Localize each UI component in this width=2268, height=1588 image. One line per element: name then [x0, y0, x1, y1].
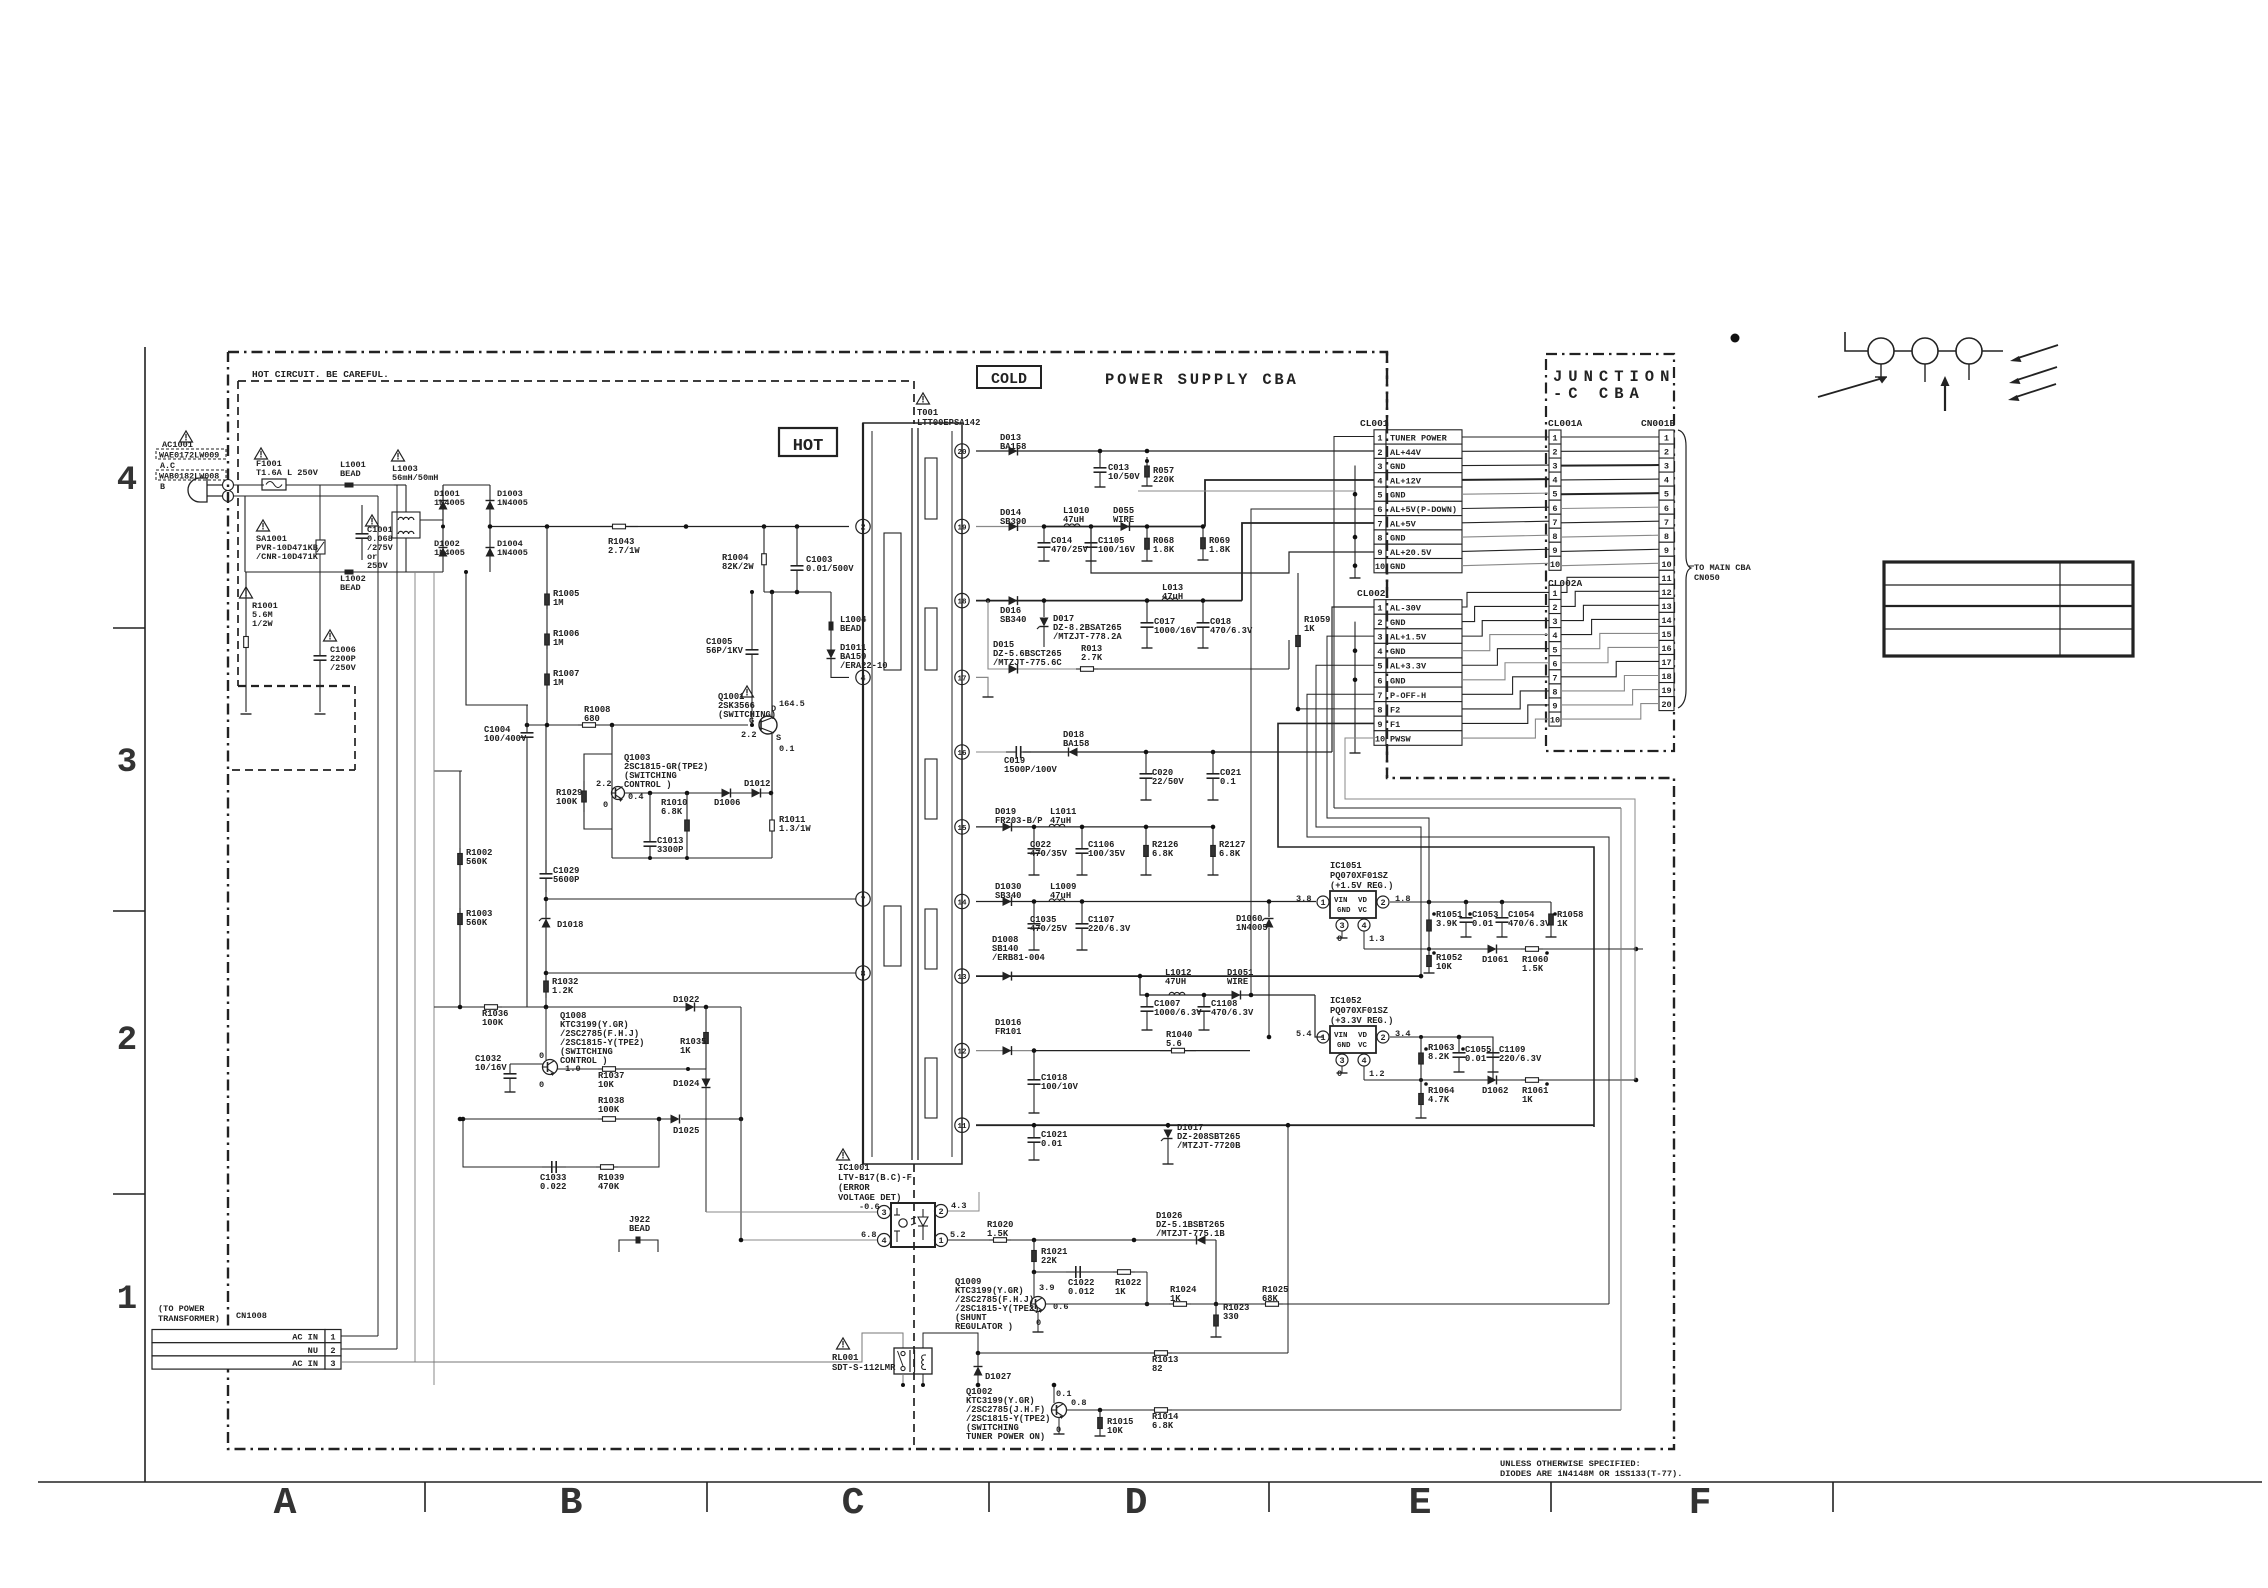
svg-text:6: 6 — [1664, 504, 1669, 514]
transformer T001 core — [912, 428, 918, 1160]
svg-text:1: 1 — [938, 1236, 943, 1246]
svg-text:1: 1 — [1552, 589, 1557, 599]
wire CL002-8 to CL002A — [1462, 691, 1549, 709]
capacitor C022 — [1028, 825, 1068, 875]
wire C1033 loop — [461, 1117, 662, 1167]
svg-text:JUNCTION: JUNCTION — [1553, 368, 1675, 386]
transformer T001 label — [917, 408, 980, 428]
wire relay coil bottom — [921, 1374, 925, 1387]
wire F1 net — [1278, 723, 1594, 1127]
svg-text:TUNER POWER: TUNER POWER — [1390, 434, 1448, 444]
inductor L1009 — [1049, 882, 1076, 902]
resistor R1059 — [1296, 573, 1331, 711]
connector CL001 — [1374, 430, 1462, 573]
diode D1016 — [995, 1018, 1021, 1055]
svg-text:100/10V: 100/10V — [1041, 1082, 1079, 1092]
svg-text:1M: 1M — [553, 678, 564, 688]
svg-text:/250V: /250V — [330, 663, 357, 673]
svg-text:11: 11 — [957, 1123, 967, 1131]
resistor R1035 — [680, 1007, 708, 1069]
svg-text:AL+5V: AL+5V — [1390, 519, 1417, 529]
svg-text:330: 330 — [1223, 1312, 1239, 1322]
transformer T001 winding rail right — [951, 431, 953, 1157]
warning triangle IC1001 — [837, 1149, 850, 1160]
wire CL002-4 to CL002A — [1462, 635, 1549, 651]
wire opto pin4 — [739, 1238, 877, 1243]
svg-text:CN050: CN050 — [1694, 573, 1720, 583]
svg-text:2: 2 — [117, 1022, 137, 1060]
wire GND bus CL001 — [1350, 466, 1361, 579]
svg-text:18: 18 — [957, 599, 967, 607]
transformer pin 11 — [955, 1118, 969, 1132]
wire to pin4 — [831, 670, 849, 677]
svg-text:REGULATOR ): REGULATOR ) — [955, 1322, 1013, 1332]
wire CL001-5 to CL001A — [1462, 493, 1549, 494]
svg-text:D1018: D1018 — [557, 920, 583, 930]
diode D1002 — [434, 539, 465, 558]
capacitor C018 — [1197, 598, 1253, 648]
svg-text:VIN: VIN — [1334, 1032, 1348, 1040]
wire AL+1.5V net — [1327, 636, 1429, 902]
label CL002A — [1548, 578, 1583, 589]
svg-text:P-OFF-H: P-OFF-H — [1390, 691, 1426, 701]
svg-text:2.7K: 2.7K — [1081, 653, 1103, 663]
svg-text:220/6.3V: 220/6.3V — [1499, 1054, 1542, 1064]
diode D1003 — [486, 485, 528, 572]
wire CL002A-9 to CN001B-19 — [1561, 690, 1659, 705]
svg-text:4.3: 4.3 — [951, 1201, 966, 1211]
svg-text:5: 5 — [1552, 490, 1557, 500]
wire row13 branch down — [1138, 974, 1315, 995]
wire CL001A-6 to CN001B — [1561, 507, 1659, 508]
svg-text:E: E — [1409, 1482, 1432, 1525]
svg-text:4: 4 — [881, 1236, 886, 1246]
diode D1001 — [434, 485, 465, 572]
svg-text:7: 7 — [1552, 673, 1557, 683]
svg-text:7: 7 — [1377, 519, 1382, 529]
resistor R1064 — [1416, 1080, 1456, 1118]
svg-text:2.2: 2.2 — [596, 779, 611, 789]
svg-text:GND: GND — [1390, 562, 1405, 572]
ruler tick — [113, 910, 145, 912]
svg-text:220/6.3V: 220/6.3V — [1088, 924, 1131, 934]
svg-text:AL+20.5V: AL+20.5V — [1390, 548, 1432, 558]
label Q1008 — [560, 1011, 644, 1066]
svg-text:11: 11 — [1661, 574, 1671, 584]
svg-text:0: 0 — [1036, 1318, 1041, 1328]
svg-text:AL+1.5V: AL+1.5V — [1390, 633, 1427, 643]
wire D1022 net down — [740, 1007, 742, 1240]
svg-text:47UH: 47UH — [1165, 977, 1186, 987]
hot area dashed boundary — [238, 380, 914, 382]
hot area dashed boundary — [913, 1164, 915, 1449]
svg-text:VD: VD — [1358, 1032, 1368, 1040]
wire CL002A-5 to CN001B-15 — [1561, 633, 1659, 648]
svg-text:GND: GND — [1390, 534, 1405, 544]
wire long vertical d — [433, 572, 435, 1385]
border frame bottom ruler line — [38, 1481, 2262, 1483]
connector CN1008 — [152, 1330, 341, 1370]
svg-text:3: 3 — [117, 744, 137, 782]
svg-text:1: 1 — [1320, 1033, 1325, 1043]
svg-text:6: 6 — [1377, 505, 1382, 515]
capacitor C1013 — [644, 793, 684, 858]
regulator IC1052 — [1330, 1026, 1376, 1053]
wire CL002A-3 to CN001B-13 — [1561, 605, 1659, 620]
svg-text:F1: F1 — [1390, 720, 1400, 730]
wire opto pin2 — [948, 1192, 979, 1211]
svg-text:AC IN: AC IN — [292, 1359, 318, 1369]
resistor R1024 — [1169, 1285, 1197, 1306]
svg-text:BEAD: BEAD — [340, 469, 361, 479]
svg-text:5.2: 5.2 — [950, 1230, 965, 1240]
svg-text:4: 4 — [117, 462, 137, 500]
pin IC1001-3 — [859, 1202, 891, 1219]
wire R1002 chain — [459, 771, 461, 1007]
svg-text:5: 5 — [1377, 662, 1382, 672]
svg-text:9: 9 — [1664, 546, 1669, 556]
inductor L1003 — [392, 464, 438, 538]
svg-text:3: 3 — [330, 1359, 335, 1369]
svg-text:AC IN: AC IN — [292, 1333, 318, 1343]
label IC1052 — [1330, 996, 1393, 1026]
svg-text:15: 15 — [957, 825, 967, 833]
svg-text:D1012: D1012 — [744, 779, 770, 789]
resistor R069 — [1198, 524, 1231, 560]
svg-text:1K: 1K — [1304, 624, 1315, 634]
svg-text:0: 0 — [1337, 1069, 1342, 1079]
pin IC1052-1 — [1296, 1029, 1329, 1043]
svg-text:BEAD: BEAD — [340, 583, 361, 593]
capacitor C020 — [1140, 750, 1185, 800]
wire row12 — [976, 1050, 1250, 1052]
capacitor C1033 — [540, 1161, 566, 1192]
wire IC1052 out — [1390, 1035, 1493, 1080]
svg-text:0.012: 0.012 — [1068, 1287, 1094, 1297]
svg-text:WAB0182LW008: WAB0182LW008 — [159, 472, 219, 482]
svg-text:D1061: D1061 — [1482, 955, 1508, 965]
svg-text:10/50V: 10/50V — [1108, 472, 1140, 482]
svg-text:-0.6: -0.6 — [859, 1202, 880, 1212]
svg-text:680: 680 — [584, 714, 600, 724]
svg-text:1K: 1K — [1170, 1294, 1181, 1304]
svg-text:D1024: D1024 — [673, 1079, 700, 1089]
inductor L1001 — [340, 460, 366, 488]
svg-text:13: 13 — [1661, 602, 1671, 612]
svg-text:1M: 1M — [553, 638, 564, 648]
AC plug — [188, 478, 234, 502]
svg-text:12: 12 — [957, 1049, 967, 1057]
svg-text:CN1008: CN1008 — [236, 1311, 267, 1321]
svg-text:470/25V: 470/25V — [1030, 924, 1068, 934]
label RL001 — [832, 1353, 896, 1373]
svg-text:2: 2 — [1552, 448, 1557, 458]
svg-text:A: A — [274, 1482, 297, 1525]
resistor R1015 — [1095, 1410, 1134, 1436]
label CL002 — [1357, 588, 1386, 599]
pin IC1001-4 — [861, 1230, 891, 1247]
svg-text:1: 1 — [117, 1281, 137, 1319]
resistor R1060 — [1521, 947, 1549, 974]
svg-text:6.8K: 6.8K — [1152, 849, 1174, 859]
diode D013 — [1000, 433, 1026, 456]
svg-text:18: 18 — [1661, 672, 1671, 682]
warning triangle C1006 — [324, 630, 337, 641]
label CN1008 — [236, 1311, 267, 1321]
svg-text:1N4005: 1N4005 — [497, 548, 528, 558]
wire AC neutral — [233, 496, 245, 572]
wire row15 — [976, 826, 1213, 828]
svg-text:8: 8 — [1552, 532, 1557, 542]
label TO MAIN CBA CN050 — [1689, 563, 1752, 583]
svg-text:20: 20 — [1661, 700, 1671, 710]
pin IC1001-2 — [935, 1201, 967, 1218]
svg-text:2: 2 — [1377, 448, 1382, 458]
svg-text:0.01/500V: 0.01/500V — [806, 564, 854, 574]
transformer T001 outline — [863, 423, 962, 1164]
wire CL001-4 to CL001A — [1462, 478, 1549, 481]
warning triangle F1001 — [255, 448, 268, 459]
svg-text:VC: VC — [1358, 907, 1368, 915]
svg-text:DIODES ARE 1N4148M OR 1SS133(T: DIODES ARE 1N4148M OR 1SS133(T-77). — [1500, 1469, 1682, 1479]
grid column label C — [842, 1482, 865, 1525]
svg-text:F2: F2 — [1390, 705, 1400, 715]
svg-text:1K: 1K — [1557, 919, 1568, 929]
warning triangle SA1001 — [257, 520, 270, 531]
svg-text:(ERROR: (ERROR — [838, 1183, 870, 1193]
svg-text:/MTZJT-775.6C: /MTZJT-775.6C — [993, 658, 1062, 668]
zener D017 — [1037, 598, 1122, 647]
resistor R1061 — [1521, 1078, 1549, 1105]
ruler tick — [1268, 1482, 1270, 1512]
inductor L1010 — [1063, 506, 1089, 527]
svg-text:2: 2 — [860, 523, 865, 533]
svg-text:13: 13 — [957, 974, 967, 982]
warning triangle RL001 — [837, 1338, 850, 1349]
label Q1001 — [718, 692, 776, 720]
diode D055 — [1113, 506, 1134, 531]
svg-text:CONTROL ): CONTROL ) — [624, 780, 672, 790]
surge absorber SA1001 — [256, 534, 325, 562]
svg-text:10/16V: 10/16V — [475, 1063, 507, 1073]
svg-text:10: 10 — [1550, 560, 1560, 570]
wire row19 — [976, 526, 1205, 528]
resistor R1014 — [1150, 1408, 1179, 1431]
svg-text:0: 0 — [603, 800, 608, 810]
svg-text:D1006: D1006 — [714, 798, 740, 808]
svg-text:7: 7 — [1664, 518, 1669, 528]
svg-text:GND: GND — [1337, 1042, 1351, 1050]
wire CL002-10 to CL002A — [1462, 719, 1549, 738]
svg-text:D: D — [1125, 1482, 1148, 1525]
grid column label F — [1689, 1482, 1712, 1525]
wire F2 net — [1298, 708, 1374, 710]
resistor R1005 — [545, 589, 580, 609]
pin IC1051-4 — [1358, 919, 1384, 944]
svg-text:/MTZJT-7720B: /MTZJT-7720B — [1177, 1141, 1241, 1151]
svg-text:1: 1 — [1320, 898, 1325, 908]
svg-text:1: 1 — [1552, 434, 1557, 444]
svg-text:1N4005: 1N4005 — [497, 498, 528, 508]
svg-text:82K/2W: 82K/2W — [722, 562, 754, 572]
resistor R1029 — [556, 781, 586, 812]
svg-text:WIRE: WIRE — [1113, 515, 1134, 525]
grid row label 3 — [117, 744, 137, 782]
transformer T001 winding rail left — [871, 431, 873, 1157]
wire CL002A-8 to CN001B-18 — [1561, 676, 1659, 691]
resistor R1004 — [722, 527, 766, 593]
svg-text:VC: VC — [1358, 1042, 1368, 1050]
relay RL001 — [894, 1348, 932, 1374]
svg-text:3: 3 — [1552, 462, 1557, 472]
svg-text:BA158: BA158 — [1000, 442, 1026, 452]
wire AC bottom — [245, 571, 443, 573]
label TO POWER TRANSFORMER — [158, 1304, 220, 1324]
label IC1051 — [1330, 861, 1393, 891]
wire CL001A-7 to CN001B — [1561, 521, 1659, 523]
pin IC1051-2 — [1377, 894, 1410, 908]
svg-text:GND: GND — [1390, 618, 1405, 628]
svg-text:0.1: 0.1 — [779, 744, 794, 754]
wire CL001-9 to CL001A — [1462, 549, 1549, 551]
wire R1037 line — [557, 1067, 706, 1071]
label CL001 — [1360, 418, 1389, 429]
diode D1025 — [671, 1115, 744, 1137]
svg-text:15: 15 — [1661, 630, 1671, 640]
svg-text:47uH: 47uH — [1162, 592, 1183, 602]
resistor R1020 — [987, 1220, 1013, 1242]
transformer pin 16 — [955, 745, 969, 759]
svg-text:100K: 100K — [482, 1018, 504, 1028]
wire row13 — [976, 975, 1421, 977]
title POWER SUPPLY CBA — [1105, 371, 1299, 389]
transformer pin 2 — [856, 519, 870, 533]
svg-text:4: 4 — [1552, 476, 1557, 486]
wire CL002-1 to CL002A — [1462, 592, 1549, 607]
fuse F1001 — [256, 459, 319, 490]
capacitor C013 — [1094, 449, 1141, 487]
diode D1060 — [1236, 899, 1274, 1039]
wire +44V row20 — [976, 450, 1374, 452]
resistor R1032 — [544, 975, 579, 998]
wire choke to bridge top — [420, 485, 466, 520]
wire Q1002 collector — [1052, 1383, 1057, 1403]
svg-text:2: 2 — [1377, 618, 1382, 628]
svg-text:CL001: CL001 — [1360, 418, 1389, 429]
capacitor C1107 — [1076, 899, 1131, 950]
svg-text:1K: 1K — [1522, 1095, 1533, 1105]
wire CL001A-3 to CN001B — [1561, 464, 1659, 467]
wire CL002A-4 to CN001B-14 — [1561, 619, 1659, 634]
svg-text:16: 16 — [1661, 644, 1671, 654]
resistor R1058 — [1546, 902, 1584, 937]
label HOT box — [779, 428, 837, 456]
inductor L1002 — [340, 570, 366, 594]
svg-text:BEAD: BEAD — [840, 624, 861, 634]
svg-text:7: 7 — [1552, 518, 1557, 528]
wire Q1009 base — [1033, 1272, 1035, 1297]
ruler tick — [988, 1482, 990, 1512]
grid column label D — [1125, 1482, 1148, 1525]
resistor R013 — [1076, 644, 1103, 671]
capacitor C014 — [1038, 524, 1089, 561]
svg-text:3: 3 — [1377, 633, 1382, 643]
warning triangle Q1001 — [741, 686, 754, 697]
label COLD box — [977, 366, 1041, 388]
svg-text:HOT CIRCUIT. BE CAREFUL.: HOT CIRCUIT. BE CAREFUL. — [252, 369, 389, 380]
svg-text:19: 19 — [957, 525, 967, 533]
wire R1038 line — [458, 1117, 675, 1122]
svg-text:G: G — [749, 716, 754, 726]
svg-text:47uH: 47uH — [1050, 816, 1071, 826]
wire +12V to CL001-4 — [1205, 480, 1374, 527]
svg-text:1N4005: 1N4005 — [1236, 923, 1268, 933]
wire CL002-3 to CL002A — [1462, 621, 1549, 637]
label Q1002 — [966, 1387, 1050, 1442]
diode D019 — [995, 807, 1043, 831]
diode D1004 — [486, 539, 528, 558]
svg-text:COLD: COLD — [991, 371, 1027, 388]
svg-text:FR101: FR101 — [995, 1027, 1021, 1037]
pin IC1051-3 — [1336, 919, 1348, 944]
grid row label 2 — [117, 1022, 137, 1060]
svg-text:2.2: 2.2 — [741, 730, 756, 740]
svg-text:(TO POWER: (TO POWER — [158, 1304, 205, 1314]
resistor R1025 — [1261, 1285, 1288, 1306]
label Q1003 — [624, 753, 708, 790]
wire pin8 aux — [546, 972, 856, 974]
svg-text:6: 6 — [1552, 659, 1557, 669]
svg-text:2: 2 — [1664, 448, 1669, 458]
pin IC1051-1 — [1296, 894, 1329, 908]
wire Q1009 collector — [1045, 1303, 1609, 1305]
svg-text:1N4005: 1N4005 — [434, 548, 465, 558]
wire CL001-1 to CL001A — [1462, 436, 1549, 438]
svg-text:470/6.3V: 470/6.3V — [1211, 1008, 1254, 1018]
wire R1013 line — [976, 1351, 1288, 1356]
svg-text:2: 2 — [1380, 898, 1385, 908]
hot area dashed boundary — [913, 381, 915, 424]
transformer pin 7 — [856, 892, 870, 906]
transistor Q1009 — [1031, 1283, 1069, 1328]
svg-text:CN001B: CN001B — [1641, 418, 1676, 429]
resistor R1023 — [1211, 1303, 1250, 1337]
wire CL001A-9 to CN001B — [1561, 549, 1659, 551]
svg-text:6: 6 — [1377, 676, 1382, 686]
wire CL001A-5 to CN001B — [1561, 493, 1659, 494]
svg-text:9: 9 — [1552, 702, 1557, 712]
svg-text:B: B — [560, 1482, 583, 1525]
regulator IC1051 — [1330, 891, 1376, 918]
svg-text:2: 2 — [1380, 1033, 1385, 1043]
resistor R1010 — [661, 793, 689, 858]
svg-text:PWSW: PWSW — [1390, 735, 1411, 745]
wire R1013 up — [1286, 1123, 1291, 1353]
svg-text:AL+3.3V: AL+3.3V — [1390, 662, 1427, 672]
resistor R1011 — [770, 793, 812, 858]
svg-text:4: 4 — [1377, 647, 1382, 657]
pin IC1052-3 — [1336, 1054, 1348, 1079]
svg-text:8: 8 — [1377, 705, 1382, 715]
diode D1024 — [673, 1069, 711, 1212]
transistor Q1003 — [596, 779, 643, 810]
svg-text:IC1051: IC1051 — [1330, 861, 1362, 871]
wire CL001A-8 to CN001B — [1561, 535, 1659, 537]
svg-text:4: 4 — [1664, 476, 1669, 486]
svg-text:CL002: CL002 — [1357, 588, 1386, 599]
svg-text:T1.6A L 250V: T1.6A L 250V — [256, 468, 319, 478]
power supply CBA border — [228, 352, 1674, 1449]
